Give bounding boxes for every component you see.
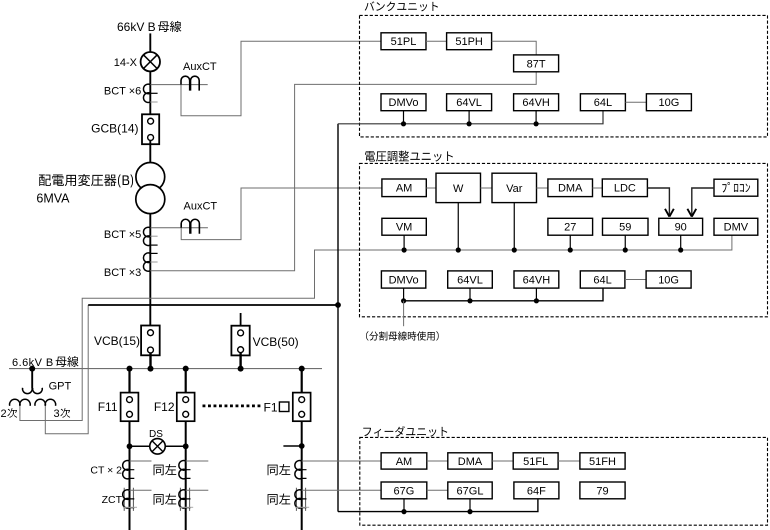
- junction VM row2 bus: [402, 247, 407, 252]
- junction 3次 bus and trunk: [335, 302, 341, 308]
- relay DMVo voltage: [381, 271, 425, 288]
- feeder switch F1: [293, 393, 311, 422]
- wire CT secondary F1x: [302, 460, 381, 462]
- label 同左 CT F12: [154, 464, 177, 475]
- wire 51PH to 87T: [492, 41, 537, 55]
- wire 3次 trunk vertical: [337, 124, 339, 512]
- svg-text:51FH: 51FH: [589, 456, 616, 468]
- wire feeder 64V bus: [338, 499, 538, 512]
- svg-text:79: 79: [596, 485, 608, 497]
- junction W row2 bus: [456, 247, 461, 252]
- junction Var row2 bus: [512, 247, 517, 252]
- svg-text:59: 59: [619, 222, 631, 234]
- label 同左 CT F1x: [268, 464, 291, 475]
- relay 64VH voltage: [514, 271, 559, 288]
- wire ZCT secondary F12: [186, 489, 209, 491]
- svg-text:DMV: DMV: [724, 222, 749, 234]
- unit box 電圧調整ユニット: [360, 163, 768, 316]
- wire 66kV incoming: [149, 33, 151, 52]
- wire bus to F12 box: [185, 369, 187, 393]
- wire 64VL stub bank: [468, 111, 470, 124]
- wire GPT 3次 lead: [45, 305, 88, 434]
- wire 64VL stub to 64V bus: [469, 288, 471, 301]
- relay LDC: [602, 179, 647, 197]
- relay 51FL: [513, 453, 558, 469]
- wire 64L-10G voltage: [625, 279, 646, 281]
- relay 51PH: [447, 33, 492, 50]
- wire AuxCT1 primary: [150, 84, 207, 86]
- junction 64VH bank bus: [534, 121, 539, 126]
- wire voltage 64V bus: [404, 288, 603, 301]
- wire F12 feeder down: [185, 421, 187, 530]
- wire 14-X to GCB: [149, 72, 151, 119]
- svg-text:Var: Var: [506, 183, 523, 195]
- node 66kV B bus label: [117, 20, 181, 34]
- svg-text:64VH: 64VH: [522, 97, 550, 109]
- junction 67GL feeder bus: [467, 509, 472, 514]
- wire DS tie F11 side: [130, 445, 150, 447]
- svg-text:10G: 10G: [659, 97, 680, 109]
- wire 64L-10G bank: [625, 101, 646, 103]
- svg-text:6MVA: 6MVA: [36, 192, 70, 206]
- feeder switch F11: [121, 393, 139, 422]
- svg-text:ZCT: ZCT: [102, 494, 123, 506]
- svg-text:64L: 64L: [594, 97, 612, 109]
- wire GPT lead: [31, 369, 33, 388]
- svg-text:CT × 2: CT × 2: [90, 464, 122, 476]
- wire DMVo split-bus stub: [403, 301, 405, 326]
- wire GCB to transformer: [149, 140, 151, 162]
- relay 10G voltage: [646, 271, 691, 288]
- unit box フィーダユニット: [360, 437, 768, 525]
- wire LDC to 90 arrow: [647, 188, 673, 217]
- CT ZCT on F1x: [295, 488, 309, 511]
- relay 59: [603, 218, 649, 235]
- wire VCB(50) top stub: [240, 313, 242, 326]
- junction 59 row2 bus: [623, 247, 628, 252]
- relay 67GL: [448, 482, 492, 499]
- svg-text:DMVo: DMVo: [389, 274, 419, 286]
- wire ZCT secondary F11: [130, 489, 152, 491]
- wire DMA-LDC: [593, 187, 603, 189]
- CT BCT×5: [143, 227, 157, 245]
- winding GPT 3次: [35, 399, 56, 405]
- relay 64VL bank: [447, 94, 492, 111]
- relay DMA feeder: [448, 453, 492, 469]
- junction DMVo bank bus: [401, 121, 406, 126]
- svg-text:F11: F11: [98, 400, 118, 414]
- wire 59 stub to row2 bus: [624, 235, 626, 250]
- winding GPT 2次: [10, 399, 31, 405]
- wire bank 64V bus: [338, 111, 603, 124]
- wire VCB(50) to bus: [239, 353, 241, 369]
- junction F11 on bus: [127, 366, 133, 372]
- wire bus to F1 box: [301, 369, 303, 393]
- breaker VCB(15): [141, 326, 160, 356]
- relay AM feeder: [381, 453, 427, 469]
- label 6.6kV B母線: [12, 356, 79, 369]
- wire F1x tie stub: [283, 445, 301, 447]
- wire 67G-67GL: [427, 489, 448, 491]
- CT CT×2 on F12: [179, 461, 191, 479]
- relay 79: [580, 482, 625, 499]
- svg-text:AuxCT: AuxCT: [183, 61, 217, 73]
- wire Var stub to row2 bus: [513, 203, 515, 250]
- svg-text:66kV B: 66kV B: [117, 20, 156, 34]
- wire 67G stub to feeder bus: [403, 499, 405, 512]
- wire AM-DMA feeder: [427, 460, 448, 462]
- feeder switch F12: [177, 393, 195, 422]
- svg-text:BCT ×3: BCT ×3: [104, 267, 141, 279]
- svg-text:27: 27: [564, 222, 576, 234]
- junction GPT on bus: [29, 366, 35, 372]
- wire AuxCT1 secondary to 51PL: [181, 41, 381, 116]
- wire W-Var: [481, 187, 493, 189]
- junction DMVo 64V bus: [401, 298, 406, 303]
- wire AuxCT2 primary: [150, 227, 208, 229]
- relay 64F: [514, 482, 559, 499]
- CT AuxCT2: [181, 219, 199, 233]
- relay 64L bank: [580, 94, 625, 111]
- CT ZCT on F12: [179, 488, 193, 511]
- svg-text:BCT ×6: BCT ×6: [104, 85, 141, 97]
- wire Var-DMA: [537, 187, 548, 189]
- junction 64VL bank bus: [467, 121, 472, 126]
- svg-text:64L: 64L: [593, 274, 611, 286]
- svg-text:3: 3: [54, 408, 60, 420]
- relay 27: [548, 218, 593, 235]
- wire 67GL stub to feeder bus: [469, 499, 471, 512]
- wire bus to F11 box: [128, 369, 130, 393]
- relay 51FH: [580, 453, 625, 469]
- svg-text:DMA: DMA: [558, 183, 583, 195]
- relay プロコン: [714, 179, 758, 196]
- relay 67G: [381, 482, 427, 499]
- svg-text:64F: 64F: [527, 485, 546, 497]
- label フィーダユニット: [363, 426, 447, 437]
- svg-text:VCB(50): VCB(50): [253, 335, 299, 349]
- wire ZCT secondary F1x: [302, 489, 381, 491]
- wire DMVo stub bank: [403, 111, 405, 124]
- label 電圧調整ユニット: [365, 151, 453, 162]
- wire dotted feeders continuation: [203, 404, 262, 407]
- junction VCB50 on bus: [238, 366, 244, 372]
- junction F1x on bus: [299, 366, 305, 372]
- wire GPT 3次 bus: [88, 304, 338, 306]
- CT AuxCT1: [181, 76, 199, 90]
- relay 64VL voltage: [448, 271, 493, 288]
- junction F1x tie: [299, 443, 305, 449]
- wire 64VH stub bank: [535, 111, 537, 124]
- label 配電用変圧器(B): [39, 174, 133, 188]
- svg-text:67G: 67G: [394, 485, 415, 497]
- svg-text:LDC: LDC: [614, 183, 636, 195]
- CT BCT×3: [143, 253, 157, 271]
- breaker VCB(50): [231, 326, 249, 356]
- relay DMA voltage: [548, 179, 593, 197]
- transformer 配電用変圧器(B) 6MVA: [136, 163, 165, 214]
- svg-text:AuxCT: AuxCT: [184, 200, 218, 212]
- wire VM stub to row2 bus: [403, 235, 405, 250]
- relay 87T: [514, 55, 559, 72]
- label 2次: [1, 408, 18, 420]
- CT CT×2 on F11: [123, 461, 135, 479]
- svg-text:DS: DS: [149, 429, 163, 440]
- relay AM voltage: [382, 179, 426, 197]
- junction DS tie at F11: [127, 443, 133, 449]
- relay 10G bank: [646, 94, 691, 111]
- wire AM-W: [426, 187, 436, 189]
- wire 90 stub to row2 bus: [680, 235, 682, 250]
- disconnector DS: [150, 439, 166, 455]
- svg-text:BCT ×5: BCT ×5: [104, 229, 141, 241]
- wire プロコン to 90 arrow: [687, 188, 714, 217]
- wire F11 feeder down: [129, 421, 131, 530]
- svg-text:87T: 87T: [527, 58, 546, 70]
- wire CT secondary F11: [130, 460, 152, 462]
- svg-text:2: 2: [1, 408, 7, 420]
- relay 90: [659, 218, 703, 235]
- CT BCT×6: [143, 84, 157, 102]
- junction F12 on bus: [183, 366, 189, 372]
- svg-text:VCB(15): VCB(15): [94, 334, 140, 348]
- meter Var: [492, 173, 537, 202]
- wire CT secondary F12: [186, 460, 209, 462]
- svg-text:64VL: 64VL: [456, 97, 482, 109]
- label 3次: [54, 408, 71, 420]
- svg-text:DMA: DMA: [458, 456, 483, 468]
- label (分割母線時使用): [366, 331, 439, 341]
- CT ZCT on F11: [123, 488, 137, 511]
- wire DS tie F12 side: [165, 445, 186, 447]
- junction 90 row2 bus: [678, 247, 683, 252]
- wire 27 stub to row2 bus: [569, 235, 571, 250]
- CT CT×2 on F1x: [295, 461, 307, 479]
- relay DMV: [714, 218, 758, 235]
- wire VCB(15) to bus: [149, 353, 151, 369]
- relay 64VH bank: [514, 94, 559, 111]
- svg-text:DMVo: DMVo: [389, 97, 419, 109]
- svg-text:90: 90: [675, 222, 687, 234]
- svg-text:VM: VM: [396, 222, 413, 234]
- junction DS tie at F12: [183, 443, 189, 449]
- label 同左 ZCT F1x: [268, 494, 291, 505]
- relay 51PL: [381, 33, 426, 50]
- svg-text:F12: F12: [154, 400, 175, 414]
- wire BCT×3 secondary to 87T: [150, 72, 536, 271]
- junction 27 row2 bus: [568, 247, 573, 252]
- relay VM: [382, 218, 426, 235]
- wire F1 feeder down: [301, 421, 303, 530]
- wire AuxCT2 secondary to voltage unit AM: [181, 188, 382, 240]
- svg-text:64VL: 64VL: [457, 274, 483, 286]
- svg-text:67GL: 67GL: [457, 485, 484, 497]
- junction 64VH 64V bus: [534, 298, 539, 303]
- svg-text:10G: 10G: [658, 274, 679, 286]
- breaker GCB(14): [142, 114, 159, 144]
- junction VCB15 on bus: [148, 366, 154, 372]
- svg-text:51PL: 51PL: [391, 36, 417, 48]
- label F1□: [264, 400, 289, 414]
- label バンクユニット: [365, 1, 438, 11]
- svg-text:51FL: 51FL: [523, 456, 548, 468]
- svg-text:GCB(14): GCB(14): [91, 122, 138, 136]
- wire GPT 2次 to voltage unit row2 bus: [20, 235, 732, 420]
- unit box バンクユニット: [360, 15, 768, 136]
- wire 51FL-51FH: [558, 460, 580, 462]
- svg-text:W: W: [453, 183, 464, 195]
- svg-text:GPT: GPT: [49, 381, 72, 393]
- wire DMA-51FL: [492, 460, 513, 462]
- wire transformer to VCB(15): [149, 214, 151, 330]
- wire W stub to row2 bus: [457, 203, 459, 250]
- transformer GPT primary winding: [23, 388, 43, 394]
- wire 51PL-51PH: [426, 40, 447, 42]
- label 同左 ZCT F12: [154, 494, 177, 505]
- wire 64VH stub to 64V bus: [535, 288, 537, 301]
- meter W: [436, 173, 481, 202]
- relay DMVo bank: [381, 94, 426, 111]
- junction 67G feeder bus: [401, 509, 406, 514]
- svg-text:51PH: 51PH: [455, 36, 483, 48]
- svg-text:AM: AM: [396, 456, 413, 468]
- svg-text:14-X: 14-X: [114, 57, 138, 69]
- disconnector 14-X: [141, 52, 160, 71]
- svg-text:64VH: 64VH: [523, 274, 551, 286]
- svg-text:F1: F1: [264, 400, 278, 414]
- wire DMVo stub to 64V bus: [403, 288, 405, 301]
- svg-text:AM: AM: [396, 183, 413, 195]
- relay 64L voltage: [580, 271, 625, 288]
- junction 64VL 64V bus: [467, 298, 472, 303]
- node 6.6kV B bus: [9, 368, 322, 370]
